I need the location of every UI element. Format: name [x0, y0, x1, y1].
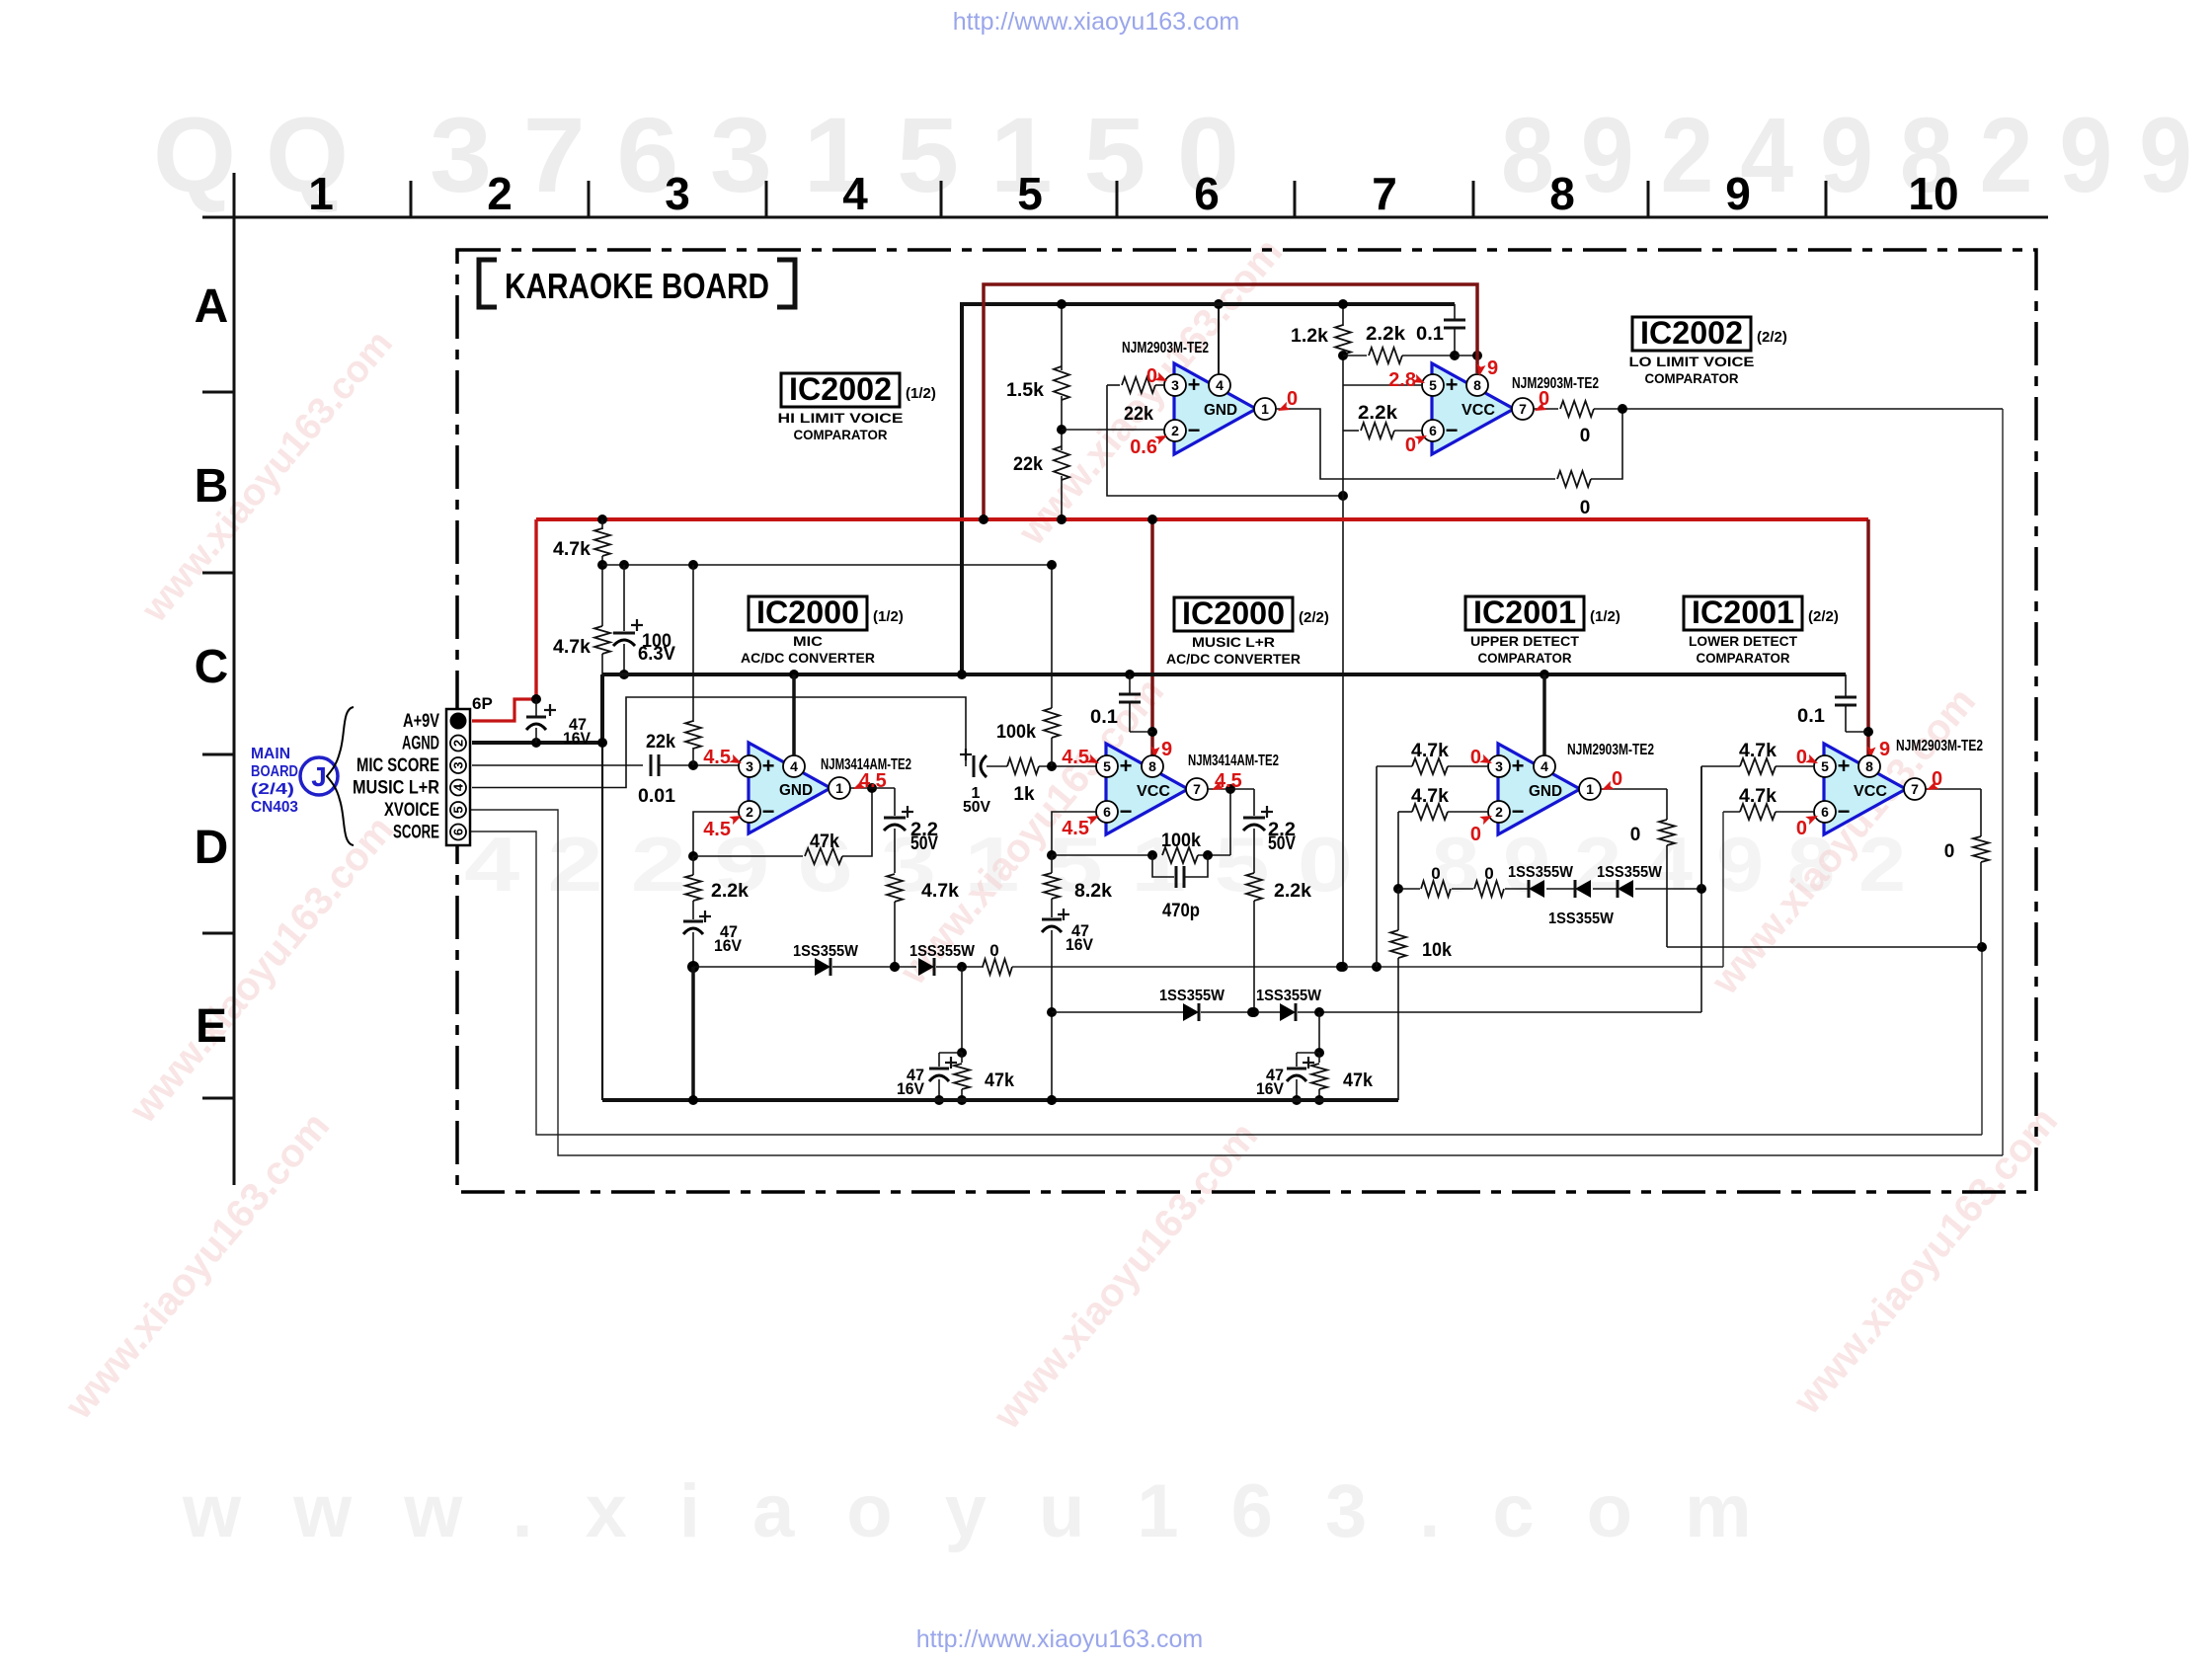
- svg-text:GND: GND: [779, 782, 813, 799]
- svg-text:0: 0: [1484, 864, 1493, 883]
- svg-text:UPPER DETECT: UPPER DETECT: [1470, 633, 1579, 649]
- svg-text:−: −: [1838, 799, 1851, 824]
- svg-text:http://www.xiaoyu163.com: http://www.xiaoyu163.com: [916, 1625, 1203, 1653]
- svg-text:16V: 16V: [1256, 1079, 1285, 1098]
- svg-text:NJM3414AM-TE2: NJM3414AM-TE2: [1188, 752, 1279, 769]
- svg-text:3: 3: [1171, 377, 1179, 393]
- svg-text:47k: 47k: [985, 1070, 1014, 1091]
- svg-text:22k: 22k: [646, 732, 675, 752]
- svg-text:50V: 50V: [910, 833, 938, 854]
- svg-text:1SS355W: 1SS355W: [1548, 911, 1615, 927]
- svg-text:3: 3: [1495, 758, 1503, 774]
- svg-text:9: 9: [1879, 739, 1890, 760]
- svg-text:(2/2): (2/2): [1299, 609, 1329, 626]
- svg-text:16V: 16V: [714, 936, 743, 955]
- svg-text:4.7k: 4.7k: [553, 637, 591, 658]
- svg-text:0: 0: [1470, 824, 1481, 845]
- svg-text:1SS355W: 1SS355W: [793, 943, 859, 960]
- svg-text:10: 10: [1908, 168, 1958, 219]
- svg-text:4 2 2 9 6 3 1 5 1 5 0: 4 2 2 9 6 3 1 5 1 5 0: [464, 821, 1353, 908]
- svg-text:8: 8: [1148, 758, 1156, 774]
- svg-text:(1/2): (1/2): [906, 385, 936, 402]
- svg-text:1: 1: [308, 168, 334, 219]
- svg-text:6: 6: [451, 829, 466, 835]
- svg-text:MIC SCORE: MIC SCORE: [356, 755, 439, 776]
- svg-text:50V: 50V: [1268, 833, 1296, 854]
- svg-text:5: 5: [1103, 758, 1111, 774]
- svg-text:1: 1: [1586, 781, 1594, 797]
- svg-text:8: 8: [1473, 377, 1481, 393]
- svg-text:470p: 470p: [1162, 901, 1200, 921]
- svg-text:2.2k: 2.2k: [1366, 324, 1405, 345]
- svg-text:IC2002: IC2002: [789, 371, 892, 407]
- svg-text:IC2001: IC2001: [1473, 594, 1576, 630]
- svg-text:0.01: 0.01: [638, 786, 675, 807]
- svg-text:NJM2903M-TE2: NJM2903M-TE2: [1567, 742, 1654, 758]
- svg-text:NJM2903M-TE2: NJM2903M-TE2: [1122, 340, 1209, 356]
- svg-text:0: 0: [1470, 747, 1481, 768]
- svg-text:2: 2: [487, 168, 513, 219]
- svg-text:D: D: [195, 822, 229, 874]
- svg-text:0: 0: [1146, 365, 1157, 387]
- svg-text:COMPARATOR: COMPARATOR: [1645, 370, 1739, 386]
- svg-text:1: 1: [835, 780, 843, 796]
- svg-text:6: 6: [1194, 168, 1220, 219]
- svg-text:10k: 10k: [1422, 940, 1452, 961]
- svg-text:AC/DC CONVERTER: AC/DC CONVERTER: [741, 650, 875, 666]
- svg-text:AGND: AGND: [402, 734, 439, 754]
- svg-text:+: +: [1446, 372, 1459, 397]
- svg-text:IC2000: IC2000: [1182, 595, 1285, 631]
- svg-text:1.5k: 1.5k: [1006, 380, 1044, 401]
- svg-text:2.2k: 2.2k: [711, 881, 749, 902]
- svg-text:www.xiaoyu163.com: www.xiaoyu163.com: [182, 1469, 1804, 1553]
- svg-text:GND: GND: [1204, 402, 1237, 419]
- svg-text:+: +: [1838, 753, 1851, 778]
- svg-text:8 9 2 4 9 8 2 9 9: 8 9 2 4 9 8 2 9 9: [1501, 95, 2192, 214]
- svg-text:6: 6: [1429, 423, 1437, 438]
- svg-text:SCORE: SCORE: [393, 823, 439, 843]
- svg-text:2: 2: [1495, 804, 1503, 820]
- svg-text:16V: 16V: [563, 729, 592, 748]
- svg-text:MIC: MIC: [793, 633, 823, 649]
- svg-text:MUSIC L+R: MUSIC L+R: [353, 778, 439, 799]
- svg-text:2: 2: [451, 740, 466, 747]
- svg-text:B: B: [195, 460, 229, 513]
- svg-text:0.1: 0.1: [1090, 707, 1118, 728]
- svg-text:0: 0: [1287, 388, 1298, 410]
- svg-text:4.7k: 4.7k: [1411, 786, 1449, 807]
- svg-text:1.2k: 1.2k: [1291, 326, 1328, 347]
- svg-text:2.2k: 2.2k: [1358, 403, 1397, 424]
- svg-text:16V: 16V: [897, 1079, 925, 1098]
- svg-text:0: 0: [1944, 841, 1955, 862]
- svg-text:MUSIC L+R: MUSIC L+R: [1192, 634, 1275, 650]
- svg-text:−: −: [762, 799, 775, 824]
- svg-text:COMPARATOR: COMPARATOR: [794, 427, 888, 442]
- svg-text:(1/2): (1/2): [1590, 608, 1620, 625]
- svg-text:4: 4: [842, 168, 868, 219]
- svg-text:6P: 6P: [472, 694, 493, 713]
- svg-text:0: 0: [1796, 747, 1807, 768]
- svg-text:GND: GND: [1529, 783, 1562, 800]
- svg-text:5: 5: [1429, 377, 1437, 393]
- svg-text:3: 3: [451, 761, 466, 768]
- svg-text:4: 4: [451, 783, 466, 791]
- svg-text:VCC: VCC: [1854, 783, 1887, 800]
- svg-text:7: 7: [1193, 781, 1201, 797]
- svg-text:22k: 22k: [1124, 404, 1153, 425]
- svg-text:2.2k: 2.2k: [1274, 881, 1311, 902]
- svg-text:2: 2: [1171, 423, 1179, 438]
- svg-text:http://www.xiaoyu163.com: http://www.xiaoyu163.com: [953, 8, 1239, 36]
- svg-text:1SS355W: 1SS355W: [1597, 864, 1663, 881]
- svg-text:4.5: 4.5: [703, 819, 731, 840]
- svg-text:LO LIMIT VOICE: LO LIMIT VOICE: [1629, 354, 1755, 369]
- svg-text:4.5: 4.5: [859, 770, 887, 792]
- svg-text:NJM2903M-TE2: NJM2903M-TE2: [1896, 738, 1983, 754]
- svg-text:CN403: CN403: [251, 799, 298, 816]
- svg-text:4.7k: 4.7k: [921, 881, 959, 902]
- svg-text:9: 9: [1487, 357, 1498, 379]
- svg-text:VCC: VCC: [1137, 783, 1170, 800]
- svg-text:47k: 47k: [1343, 1070, 1373, 1091]
- svg-text:0.6: 0.6: [1130, 436, 1157, 458]
- svg-text:3: 3: [665, 168, 690, 219]
- svg-text:1SS355W: 1SS355W: [909, 943, 976, 960]
- svg-text:8: 8: [1865, 758, 1873, 774]
- svg-text:9: 9: [1161, 739, 1172, 760]
- svg-text:1SS355W: 1SS355W: [1256, 988, 1322, 1004]
- svg-text:6.3V: 6.3V: [638, 644, 675, 665]
- svg-text:J: J: [311, 761, 327, 792]
- svg-text:7: 7: [1911, 781, 1919, 797]
- svg-text:4.5: 4.5: [703, 747, 731, 768]
- svg-text:2.8: 2.8: [1388, 369, 1416, 391]
- svg-text:A+9V: A+9V: [403, 711, 439, 732]
- svg-text:7: 7: [1519, 401, 1527, 417]
- svg-text:1SS355W: 1SS355W: [1508, 864, 1574, 881]
- svg-text:+: +: [1512, 753, 1525, 778]
- svg-text:2: 2: [746, 804, 753, 820]
- svg-text:4: 4: [790, 758, 798, 774]
- svg-text:7: 7: [1372, 168, 1397, 219]
- svg-text:4.7k: 4.7k: [1411, 741, 1449, 761]
- svg-text:BOARD: BOARD: [251, 763, 298, 780]
- svg-text:−: −: [1188, 418, 1201, 442]
- svg-text:AC/DC CONVERTER: AC/DC CONVERTER: [1166, 651, 1301, 667]
- svg-text:0: 0: [989, 941, 998, 960]
- svg-text:−: −: [1120, 799, 1133, 824]
- svg-text:0: 0: [1796, 818, 1807, 839]
- svg-text:IC2000: IC2000: [756, 594, 859, 630]
- svg-text:5: 5: [451, 806, 466, 813]
- svg-text:+: +: [1188, 372, 1201, 397]
- svg-text:0.1: 0.1: [1416, 324, 1444, 345]
- svg-text:(1/2): (1/2): [873, 608, 904, 625]
- svg-text:0: 0: [1580, 426, 1591, 446]
- svg-text:IC2001: IC2001: [1692, 594, 1794, 630]
- svg-text:−: −: [1512, 799, 1525, 824]
- svg-text:(2/2): (2/2): [1757, 329, 1787, 346]
- svg-text:6: 6: [1821, 804, 1829, 820]
- svg-text:0: 0: [1405, 435, 1416, 456]
- svg-text:4: 4: [1216, 377, 1224, 393]
- svg-text:8.2k: 8.2k: [1074, 881, 1112, 902]
- svg-text:4.5: 4.5: [1062, 747, 1089, 768]
- svg-text:9: 9: [1725, 168, 1751, 219]
- svg-text:(2/2): (2/2): [1808, 608, 1839, 625]
- svg-text:XVOICE: XVOICE: [384, 800, 439, 821]
- svg-text:4.5: 4.5: [1062, 818, 1089, 839]
- svg-text:4.7k: 4.7k: [553, 539, 591, 560]
- svg-text:HI LIMIT VOICE: HI LIMIT VOICE: [778, 410, 904, 426]
- svg-text:1k: 1k: [1013, 784, 1035, 805]
- svg-text:1: 1: [1261, 401, 1269, 417]
- svg-text:KARAOKE BOARD: KARAOKE BOARD: [505, 266, 769, 306]
- svg-text:0: 0: [1580, 498, 1591, 518]
- svg-text:NJM2903M-TE2: NJM2903M-TE2: [1512, 375, 1599, 392]
- svg-text:50V: 50V: [963, 799, 990, 816]
- svg-text:47k: 47k: [810, 831, 839, 852]
- svg-text:C: C: [195, 641, 229, 693]
- svg-text:COMPARATOR: COMPARATOR: [1478, 650, 1572, 666]
- svg-text:VCC: VCC: [1461, 402, 1495, 419]
- svg-text:E: E: [196, 1000, 227, 1053]
- svg-text:MAIN: MAIN: [251, 746, 290, 762]
- svg-text:22k: 22k: [1013, 454, 1043, 475]
- svg-text:0: 0: [1431, 864, 1440, 883]
- svg-text:A: A: [195, 280, 229, 333]
- svg-text:+: +: [1120, 753, 1133, 778]
- svg-text:+: +: [762, 753, 775, 778]
- svg-text:5: 5: [1821, 758, 1829, 774]
- svg-text:16V: 16V: [1066, 935, 1094, 954]
- svg-text:0.1: 0.1: [1797, 706, 1825, 727]
- svg-text:6: 6: [1103, 804, 1111, 820]
- svg-text:IC2002: IC2002: [1640, 315, 1743, 351]
- svg-text:100k: 100k: [1161, 831, 1201, 851]
- svg-text:0: 0: [1612, 768, 1622, 790]
- svg-text:100k: 100k: [996, 722, 1036, 743]
- svg-text:LOWER DETECT: LOWER DETECT: [1689, 633, 1797, 649]
- svg-text:8: 8: [1549, 168, 1575, 219]
- svg-text:COMPARATOR: COMPARATOR: [1697, 650, 1790, 666]
- svg-text:5: 5: [1017, 168, 1043, 219]
- svg-text:1SS355W: 1SS355W: [1159, 988, 1225, 1004]
- svg-text:0: 0: [1630, 825, 1641, 845]
- svg-text:3: 3: [746, 758, 753, 774]
- svg-text:4: 4: [1540, 758, 1548, 774]
- svg-text:(2/4): (2/4): [251, 781, 294, 798]
- svg-text:4.7k: 4.7k: [1739, 741, 1777, 761]
- svg-text:−: −: [1446, 418, 1459, 442]
- svg-text:4.7k: 4.7k: [1739, 786, 1777, 807]
